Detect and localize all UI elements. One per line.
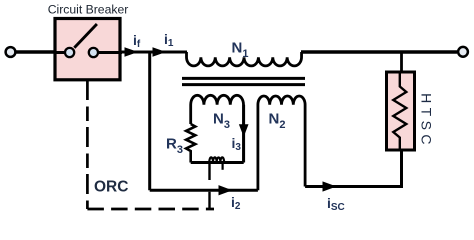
wire: bottom of R3/N3 loop	[191, 161, 244, 164]
wire: input lead to circuit breaker	[15, 50, 56, 53]
arrow if	[125, 48, 137, 56]
wire: breaker internal left segment	[55, 51, 66, 54]
secondary winding N2	[258, 96, 305, 190]
transformer core (two bars)	[182, 78, 305, 84]
wire i2 (shunt branch bottom)	[150, 189, 258, 192]
right terminal	[458, 47, 468, 57]
tap wire to ORC (crossover gap at i2 wire)	[208, 163, 210, 210]
coil right lead stub	[222, 163, 224, 170]
svg-text:ORC: ORC	[94, 179, 128, 196]
arrow i3 (downward)	[240, 125, 248, 136]
node: junction to shunt branch	[148, 52, 151, 190]
wire: breaker internal right segment	[97, 51, 122, 54]
left terminal	[6, 47, 16, 57]
arrow i2	[219, 186, 231, 195]
saturable-core coil on loop bottom	[209, 157, 224, 162]
breaker contact circle (left)	[65, 48, 74, 57]
svg-text:Circuit Breaker: Circuit Breaker	[48, 3, 129, 17]
wire iSC (to HTSC)	[305, 150, 401, 187]
wire: right side of inner loop with i3	[242, 105, 245, 163]
arrow iSC	[323, 182, 335, 191]
breaker contact circle (right)	[89, 48, 98, 57]
ORC dashed boundary: bottom side	[87, 208, 214, 211]
transformer primary winding N1	[187, 52, 302, 66]
breaker blade (switch arm)	[74, 24, 97, 48]
arrow i1	[153, 48, 165, 56]
wire: N1 to right terminal	[301, 50, 457, 53]
secondary winding N3	[191, 95, 244, 162]
HTSC internal resistor zigzag	[393, 73, 406, 149]
wire: top rail to HTSC	[400, 52, 403, 72]
HTSC element box	[387, 72, 415, 150]
svg-text:HTSC: HTSC	[419, 93, 435, 149]
resistor R3	[186, 124, 195, 163]
ORC dashed boundary: left side	[86, 80, 89, 209]
circuit breaker CB box	[55, 19, 120, 80]
wire: breaker output to N1 winding	[119, 51, 187, 54]
